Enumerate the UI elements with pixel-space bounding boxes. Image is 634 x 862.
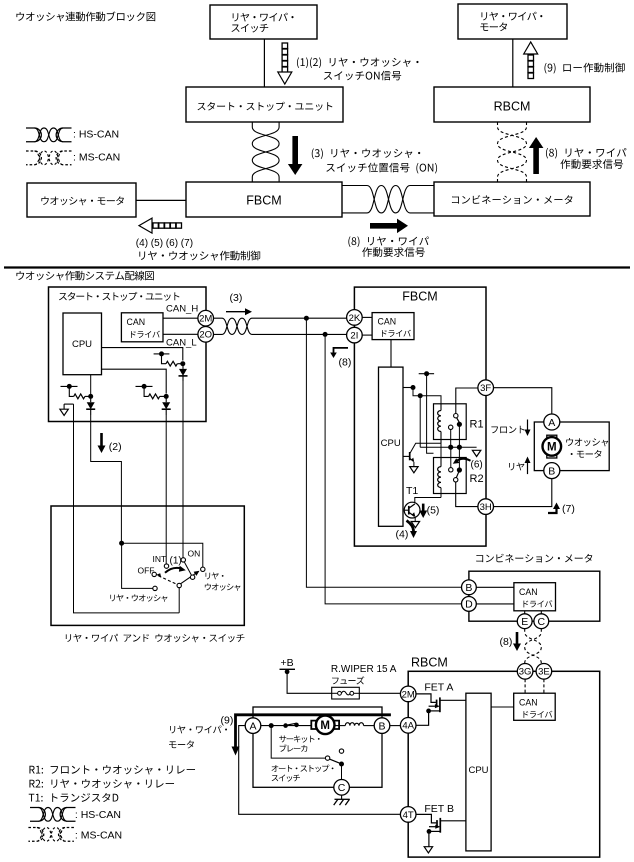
svg-text:(4) (5) (6) (7): (4) (5) (6) (7) (136, 238, 193, 249)
auto stop switch pivot (325, 756, 329, 760)
unit box rear wiper and washer switch (51, 506, 244, 625)
signal arrow (3) (288, 136, 303, 175)
junction dot pullup 2 output (88, 394, 93, 399)
legend R2 (29, 779, 174, 788)
relay R2 blade (456, 472, 458, 477)
legend R1 (29, 765, 195, 774)
wiper motor inductor (336, 723, 375, 726)
wire bus to R2 fixed contact (450, 447, 452, 467)
wire FET A source to 4A (416, 711, 429, 725)
wire pullup 3 to resistor (144, 386, 148, 396)
junction dot A branch (269, 723, 274, 728)
connector 2I (347, 327, 363, 343)
svg-text:RBCM: RBCM (494, 100, 531, 114)
wire resistor 2 to node (85, 395, 91, 397)
wire A to 4T (239, 726, 401, 815)
wire B to 4A (390, 725, 401, 727)
svg-text:(6): (6) (471, 460, 483, 471)
thick signal wire (9) (236, 715, 391, 747)
unit box rear wiper motor (253, 707, 382, 787)
svg-text:CAN: CAN (378, 317, 397, 327)
svg-text:(9): (9) (221, 715, 234, 727)
wire R2 to 3H (456, 482, 478, 507)
auto stop blade dot (339, 762, 344, 767)
power +B terminal (280, 669, 296, 674)
connector 2M rbcm (400, 686, 416, 702)
MS-CAN legend symbol (bottom) (28, 828, 74, 842)
label rear wiper motor line2 (169, 740, 194, 748)
svg-text:OFF: OFF (138, 566, 155, 576)
connector 2K (347, 310, 363, 326)
legend T1 (29, 793, 119, 802)
contact INT (164, 564, 168, 568)
label combination meter (476, 554, 592, 563)
wire washer motor to FBCM (136, 199, 186, 201)
svg-text:4A: 4A (402, 721, 414, 732)
label (1)(2) rear washer switch ON signal (297, 57, 419, 80)
transistor T1 symbol (404, 504, 415, 517)
arrow rear up (527, 460, 529, 474)
junction dot switch feed (119, 541, 124, 546)
dashed wire 3E to CAN driver (543, 679, 545, 693)
wire pullup 2 to resistor (69, 386, 73, 396)
svg-text:CPU: CPU (468, 765, 488, 776)
contact rear washer right (201, 567, 205, 571)
wire CAN_L drop to combination meter D (325, 334, 462, 604)
wire T1 emitter to ground (414, 517, 416, 522)
signal arrow (1)(2) rear washer switch ON (278, 43, 292, 84)
washer motor M (543, 437, 562, 456)
twisted pair RBCM to combination meter (MS-CAN) (498, 122, 527, 182)
label circuit breaker line2 (280, 744, 308, 751)
svg-text:(7): (7) (562, 503, 575, 515)
label circuit breaker line1 (279, 735, 319, 742)
diode D3 (165, 396, 167, 402)
wire CAN driver to 2M (163, 317, 198, 319)
svg-text:(3): (3) (230, 292, 243, 304)
svg-text:3F: 3F (480, 383, 491, 394)
block washer motor (27, 183, 136, 217)
junction dot R1 feed (411, 385, 416, 390)
CAN driver in combination meter (514, 583, 556, 611)
connector A washer (544, 414, 560, 430)
signal marker (6) triangle (472, 450, 480, 456)
resistor pullup 3 (149, 394, 160, 399)
circuit breaker contacts (283, 723, 288, 728)
fuse R.WIPER 15A (332, 687, 360, 699)
junction dot pullup 3 output (164, 394, 169, 399)
svg-text:B: B (378, 720, 385, 732)
wire ground arrow to switch common (74, 404, 180, 613)
wiper motor brushes (311, 721, 317, 729)
switch OFF dashed blade (159, 576, 178, 584)
wire CAN driver to C (540, 611, 542, 614)
wire R2 coil to T1 collector (415, 498, 441, 504)
rotation arrow relay R2 (457, 459, 471, 461)
svg-text:3H: 3H (480, 502, 492, 513)
label front (491, 426, 524, 433)
svg-text:A: A (249, 720, 256, 732)
wire 3F to washer motor A (494, 388, 552, 414)
svg-text:CAN: CAN (127, 317, 146, 327)
junction dot R1 feed 2 (418, 393, 423, 398)
CPU U1 in start stop unit (63, 313, 102, 375)
wire CPU bottom to pullup 2 node (90, 375, 92, 397)
unit box combination meter (469, 571, 600, 621)
block combination meter (434, 182, 590, 216)
svg-text:R.WIPER 15 A: R.WIPER 15 A (331, 664, 397, 675)
wire resistor 1 to node (177, 363, 183, 365)
junction dot pullup 3 (142, 384, 147, 389)
wire rear wiper switch to start stop unit (263, 39, 265, 87)
svg-text:(5): (5) (427, 505, 440, 517)
svg-text:: HS-CAN: : HS-CAN (73, 129, 119, 141)
diode D2 (90, 396, 92, 402)
mosfet FET B (417, 814, 467, 833)
connector B washer (544, 463, 560, 479)
signal arrow (7) (548, 506, 557, 513)
label (3) rear washer switch position signal (312, 148, 437, 173)
wire CAN driver to CPU (RBCM) (491, 706, 514, 708)
wire FET B source to ground (428, 831, 430, 846)
connector 3G (517, 664, 533, 680)
svg-text:A: A (548, 417, 555, 429)
connector C meter (534, 614, 549, 629)
wire auto stop to C (341, 764, 343, 780)
wire fuse to 2M (359, 692, 400, 694)
signal arrow (8) meter to RBCM (516, 632, 519, 647)
wire resistor 3 to node (160, 395, 167, 397)
connector E meter (517, 614, 532, 629)
svg-text:FET A: FET A (424, 682, 453, 694)
svg-text:B: B (465, 582, 472, 594)
wire CAN_H drop to combination meter B (306, 318, 461, 587)
relay R1 box (434, 404, 467, 440)
svg-text:4T: 4T (403, 810, 414, 821)
wire rear wiper motor to RBCM (512, 39, 514, 87)
contact ON (181, 558, 185, 562)
wire Q2 emitter to ground (413, 462, 415, 467)
section separator (4, 266, 630, 268)
relay R2 coil (438, 443, 441, 498)
label start stop unit (59, 292, 179, 301)
wire CAN driver to CPU (FBCM) (390, 340, 392, 368)
svg-text:2M: 2M (199, 314, 212, 325)
wire diode D2 to switch node (jog) (91, 415, 122, 543)
wire R1 lower contact to bus (450, 430, 452, 448)
connector 4A rbcm (400, 718, 416, 734)
label rear washer right (205, 572, 241, 590)
mosfet FET A (416, 694, 466, 713)
twisted pair FBCM to combination meter (342, 186, 434, 213)
svg-text:(4): (4) (396, 529, 409, 541)
connector B wiper (374, 718, 390, 734)
svg-text:(8): (8) (339, 357, 352, 369)
flow arrow (3) (226, 311, 248, 313)
svg-text:CPU: CPU (381, 438, 401, 449)
transistor Q2 base wire (403, 455, 409, 457)
HS-CAN legend symbol (top) (26, 128, 72, 142)
wire 2K to CAN driver (362, 316, 372, 318)
resistor pullup 1 (166, 361, 177, 366)
wire pole down (178, 588, 180, 613)
signal arrow (8) bent (334, 348, 349, 355)
relay R2 blade dot (457, 467, 462, 472)
signal arrow (4) (407, 521, 414, 532)
ground Q2 (410, 467, 418, 473)
junction dot pullup 1 output (180, 361, 185, 366)
wire diode D1 to switch ON contact (182, 381, 184, 558)
wire R1 feed staircase (413, 388, 441, 404)
wire R1 contact to 3F (456, 388, 478, 414)
wire A branch to auto stop switch (271, 726, 325, 759)
svg-text:2K: 2K (349, 313, 361, 324)
wiper motor M (316, 716, 335, 735)
node stub pullup 2 (61, 385, 78, 387)
block start stop unit (186, 87, 343, 122)
label rear washer operation control (139, 251, 260, 261)
svg-text:CAN_H: CAN_H (166, 304, 198, 315)
unit box RBCM (408, 671, 600, 857)
wire CPU to pullup node (lower) (102, 369, 167, 393)
svg-text:(2): (2) (109, 441, 122, 453)
switch rotation arrow (165, 568, 182, 573)
signal-ground open arrow in start stop unit (60, 404, 74, 415)
CPU U2 in FBCM (379, 367, 404, 526)
contact rear washer left (153, 586, 157, 590)
svg-text:CPU: CPU (72, 339, 92, 350)
junction dot pullup 2 (67, 384, 72, 389)
CAN driver in FBCM (372, 313, 414, 340)
label rear washer left (110, 594, 167, 601)
resistor pullup 2 (74, 394, 85, 399)
svg-text:M: M (547, 442, 557, 454)
svg-text:C: C (538, 616, 546, 628)
connector 2O (198, 327, 214, 343)
svg-text:3G: 3G (519, 667, 532, 678)
label (8) rear wiper operation request signal (right) (546, 148, 626, 169)
svg-text:FET B: FET B (424, 803, 454, 815)
svg-text:E: E (521, 616, 528, 628)
twisted pair start stop unit to FBCM (252, 122, 279, 182)
relay R1 contact lower (449, 425, 453, 429)
connector 3H (478, 499, 494, 515)
svg-text:FBCM: FBCM (402, 290, 437, 304)
contact OFF (152, 572, 156, 576)
wire CAN driver to E (524, 611, 526, 614)
ground FET B (424, 847, 432, 853)
label (8) rear wiper operation request signal (bottom) (348, 236, 428, 256)
wire +B to fuse (287, 672, 332, 694)
svg-text:CAN_L: CAN_L (166, 338, 197, 349)
auto stop blade (330, 759, 340, 763)
label fuse katakana (332, 676, 364, 684)
wire B to CAN driver (476, 586, 514, 588)
junction dot bus R1 a (448, 445, 453, 450)
connector A wiper (245, 718, 261, 734)
connector 3E (536, 664, 552, 680)
transistor Q2 (410, 452, 415, 462)
label rear wiper motor line1 (170, 725, 227, 733)
signal arrow (9) low operation control (524, 42, 538, 79)
svg-text:R2: R2 (470, 473, 484, 485)
connector 2M (198, 310, 214, 326)
block RBCM (434, 87, 590, 122)
svg-text:CAN: CAN (519, 587, 538, 597)
svg-text:B: B (548, 465, 555, 477)
diode D1 (182, 364, 184, 369)
wire switch feed to rear washer right contact (122, 543, 203, 567)
relay common bus (420, 446, 476, 448)
svg-text:CAN: CAN (519, 698, 538, 708)
block rear wiper motor (458, 4, 567, 39)
wire CPU to R1 feed (403, 387, 413, 389)
wire D to CAN driver (476, 603, 514, 605)
label auto stop line1 (272, 765, 334, 773)
relay R2 box (434, 458, 467, 494)
svg-text:INT: INT (153, 554, 167, 564)
svg-text:2I: 2I (350, 331, 358, 342)
wire A to breaker (261, 725, 312, 727)
relay R1 blade dot (457, 422, 462, 427)
CAN driver in RBCM (514, 693, 556, 720)
title: washer operation system wiring diagram (16, 271, 153, 281)
relay R2 contact fixed (449, 468, 453, 472)
signal arrow (5) (422, 504, 425, 514)
svg-text:T1: T1 (406, 485, 418, 497)
CAN driver in start stop unit (121, 313, 163, 342)
chassis ground below C (334, 795, 350, 805)
junction dot CAN_H drop (304, 316, 309, 321)
svg-text:2O: 2O (199, 330, 212, 341)
svg-text:M: M (320, 720, 330, 732)
wire diode D3 to switch INT contact (165, 415, 167, 564)
svg-text:: MS-CAN: : MS-CAN (75, 830, 122, 842)
wire switch feed to rear washer left contact (122, 543, 153, 588)
connector 3F (478, 380, 494, 396)
bus stub upper (419, 373, 434, 375)
signal arrow (2) (100, 433, 103, 449)
svg-text:D: D (465, 599, 473, 611)
ground T1 (411, 522, 419, 528)
junction dot pullup 1 (159, 351, 164, 356)
HS-CAN legend symbol (bottom) (30, 808, 76, 822)
signal arrow (4)(5)(6)(7) left (139, 218, 182, 233)
label rear (509, 463, 524, 471)
node stub pullup 1 (154, 353, 170, 355)
dashed wire 3G to CAN driver (524, 679, 526, 693)
washer motor brushes (547, 435, 557, 438)
MS-CAN legend symbol (top) (26, 151, 72, 165)
block rear wiper switch (210, 5, 317, 39)
wire 2I to CAN driver (362, 334, 372, 336)
svg-text:ON: ON (188, 549, 201, 559)
connector D meter (462, 597, 477, 612)
unit box start stop unit (49, 287, 207, 422)
wire washer motor B to 3H (494, 479, 552, 507)
svg-text:(1): (1) (170, 556, 182, 567)
node stub pullup 3 (136, 385, 153, 387)
label washer motor (566, 438, 608, 458)
wire CAN driver to 2O (163, 333, 198, 335)
wire bus to R2 blade (458, 447, 460, 467)
svg-text:(8): (8) (500, 636, 513, 648)
relay R2 contact lower (454, 478, 458, 482)
svg-text:3E: 3E (538, 667, 550, 678)
wire R1 feed 2 to relay bus (419, 396, 421, 448)
unit box washer motor (534, 422, 609, 471)
wire pullup 1 to resistor (162, 354, 167, 364)
junction dot bus R1 b (457, 445, 462, 450)
title: washer interlock operation block diagram (16, 11, 155, 21)
svg-text:RBCM: RBCM (411, 656, 448, 670)
svg-text:: MS-CAN: : MS-CAN (73, 152, 120, 164)
unit box FBCM (354, 287, 486, 546)
block FBCM (186, 182, 342, 217)
label rear wiper and washer switch (66, 634, 245, 643)
auto stop open contact (339, 749, 343, 753)
twisted pair CAN_H/CAN_L to FBCM (214, 318, 347, 334)
wire CPU to pullup node (upper) (102, 348, 183, 361)
svg-text:+B: +B (281, 657, 294, 669)
svg-text:R1: R1 (470, 419, 484, 431)
junction dot bus upper (424, 371, 429, 376)
svg-text:: HS-CAN: : HS-CAN (75, 809, 121, 821)
svg-text:FBCM: FBCM (246, 194, 281, 208)
wire bus upper feed (427, 374, 434, 454)
relay R1 coil (438, 404, 441, 443)
label (9) low operation control (544, 63, 624, 74)
connector B meter (462, 580, 477, 595)
signal arrow (8) right (370, 219, 408, 234)
twisted pair E/C to 3G/3E (MS-CAN) (525, 629, 542, 666)
connector C wiper (334, 780, 350, 796)
CPU U3 in RBCM (466, 693, 491, 851)
junction dot CAN_L drop (323, 332, 328, 337)
transistor T1 circle (404, 502, 420, 518)
switch blade contact (184, 562, 195, 580)
relay R1 blade (457, 418, 460, 423)
svg-text:2M: 2M (402, 689, 415, 700)
switch pole contact (177, 583, 181, 587)
label auto stop line2 (272, 775, 300, 782)
arrow front down (527, 420, 529, 433)
switch blade (181, 573, 197, 584)
svg-text:C: C (338, 782, 346, 794)
signal arrow (8) up (529, 137, 544, 174)
connector 4T rbcm (400, 807, 416, 823)
wire R1 coil bottom to transistor collector (410, 443, 441, 454)
relay R1 contact fixed (454, 414, 458, 418)
wire R1 blade to bus (458, 424, 460, 447)
